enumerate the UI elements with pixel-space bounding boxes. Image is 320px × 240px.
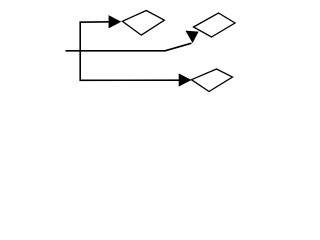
arrowhead bottom: [179, 73, 192, 86]
wire fork: top branch, vertical, bottom branch: [80, 22, 180, 81]
wire trunk horizontal: [66, 50, 167, 52]
diamond middle: [194, 13, 236, 37]
arrowhead top: [109, 15, 122, 28]
arrowhead middle: [185, 31, 198, 43]
diamond top: [122, 11, 164, 36]
diamond bottom: [192, 69, 233, 92]
wire middle diagonal: [165, 43, 192, 51]
